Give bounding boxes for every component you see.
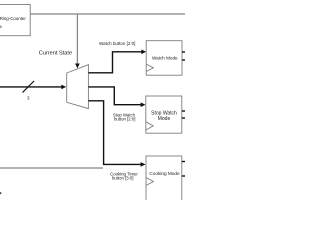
block Ring-Counter (cut off at left edge)	[0, 5, 30, 36]
stub Cooking Mode output 2	[182, 175, 185, 177]
clock marker Stop Watch Mode	[146, 122, 153, 130]
wire mux output 3 to Cooking Mode	[88, 101, 140, 165]
arrowhead into Watch Mode	[141, 50, 146, 55]
mux U1 (trapezoid decoder)	[67, 65, 89, 109]
svg-text:Mode: Mode	[158, 116, 171, 122]
svg-text:Cooking Mode: Cooking Mode	[149, 171, 180, 176]
svg-text:Watch Mode: Watch Mode	[152, 56, 178, 61]
clock marker Watch Mode	[146, 64, 153, 71]
block Watch Mode	[146, 41, 182, 75]
svg-text:Current State: Current State	[39, 51, 72, 57]
arrowhead bus into mux	[61, 85, 66, 90]
svg-text:button [3:0]: button [3:0]	[112, 176, 134, 181]
arrowhead into Stop Watch Mode	[141, 102, 146, 107]
wire current-state bus into mux	[0, 86, 62, 88]
wire mux output 2 to Stop Watch Mode	[88, 87, 140, 105]
stub Stop Watch Mode output 2	[182, 117, 185, 119]
clock marker Cooking Mode	[146, 178, 153, 186]
arrowhead select into mux	[75, 64, 80, 69]
stub Watch Mode output 2	[182, 59, 185, 61]
svg-text:button [2:0]: button [2:0]	[114, 117, 136, 122]
stub Cooking Mode output 1	[182, 161, 185, 163]
wire mux output 1 to Watch Mode	[88, 52, 141, 73]
wire bottom rail (cut at left edge)	[0, 167, 103, 169]
clock marker of Ring-Counter	[0, 24, 2, 29]
wire top rail from Ring-Counter to right edge	[30, 13, 185, 15]
svg-text:Ring-Counter: Ring-Counter	[0, 16, 26, 21]
stub Stop Watch Mode output 1	[182, 110, 185, 112]
block Stop Watch Mode	[146, 96, 182, 133]
bus width slash	[23, 81, 35, 93]
arrowhead into Cooking Mode	[141, 162, 146, 167]
wire select line down to mux	[76, 14, 78, 64]
svg-text:Watch button [2:0]: Watch button [2:0]	[99, 41, 135, 46]
stub Watch Mode output 1	[182, 51, 185, 53]
block Cooking Mode (cut at bottom edge)	[146, 156, 182, 206]
text fragment cut at left bottom edge	[0, 192, 2, 195]
